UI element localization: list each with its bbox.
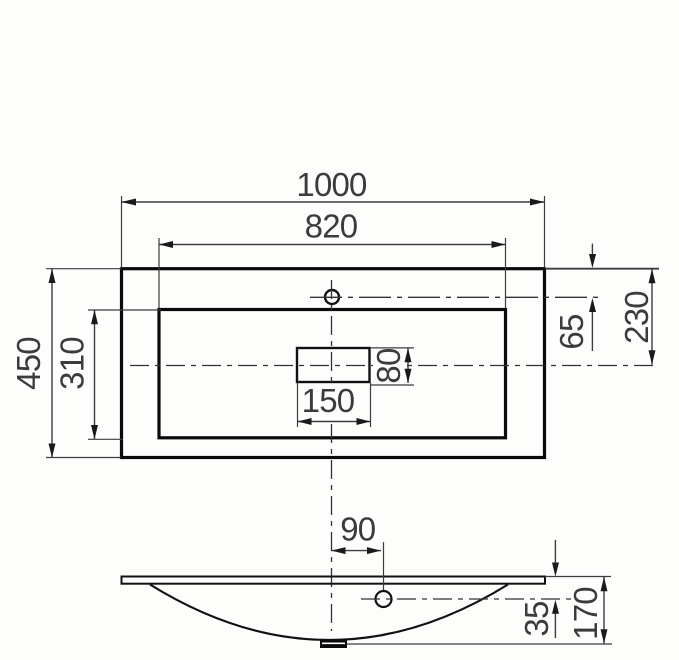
faucet horizontal centerline (dash-dot) [310,296,599,298]
drain horizontal centerline (dash-dot) [130,365,657,367]
dim 150 line [298,421,371,423]
dim 310 arrow bottom [91,425,98,439]
dim 1000 arrow left [122,199,137,206]
dim 450 arrow bottom [49,444,56,458]
outer basin outline (top view) [122,269,545,458]
rim (front view) [122,577,546,584]
faucet hole circle [325,290,339,304]
dim 820 arrow right [492,241,506,248]
dim 820 arrow left [159,241,173,248]
svg-text:90: 90 [340,511,376,548]
dim 150 label backing [304,387,356,418]
dim 80 extension line bottom [371,384,414,386]
dim 1000 extension line right [544,196,546,268]
svg-text:1000: 1000 [296,166,367,203]
dim 820 extension line left [158,238,160,308]
dim 65 upper tail with down arrow [591,244,593,255]
dim 170 arrow bottom [601,629,608,643]
dim 35 lower tail with up arrow [554,612,556,638]
dim 90 arrow right [367,547,381,554]
inner bowl outline (top view) [159,310,506,438]
dim 450 line [51,269,53,458]
dim 230 arrow bottom [649,350,656,364]
dim 1000 line [122,201,545,203]
dim 80 arrow top [405,348,412,362]
dim 230 arrow top [649,269,656,283]
dim 90 extension line right [383,542,385,590]
dim 310 arrow top [91,310,98,324]
svg-text:35: 35 [518,601,555,636]
dim 150 extension line right [370,383,372,427]
svg-text:230: 230 [618,291,655,344]
svg-text:450: 450 [10,337,47,390]
dim 170 arrow top [601,577,608,591]
drain fitting (front view) [320,640,347,649]
dim 450 extension line top [46,268,121,270]
dim 310 extension line top [88,309,161,311]
dim 820 line [159,244,506,246]
dim 90 arrow left [332,547,346,554]
svg-text:65: 65 [553,314,590,349]
dim 450 arrow top [49,269,56,283]
dim 65 lower tail with up arrow [591,311,593,351]
dim 1000 extension line left [121,196,123,268]
dim 170 extension line bottom [347,643,612,645]
svg-text:170: 170 [567,587,604,640]
dim 230 line [651,269,653,365]
dim 90 line [332,550,382,552]
dim 35 upper tail with down arrow [554,540,556,563]
dim 1000 arrow right [530,199,545,206]
dim 310 extension line bottom [88,438,123,440]
drain rectangle [297,348,370,382]
dim 80 arrow bottom [405,369,412,383]
dim 80 label backing [373,349,404,382]
dim 170 line [603,577,605,644]
overflow horizontal centerline (dash-dot) [361,598,578,600]
dim 150 extension line left [297,383,299,427]
dim 170 extension line top [545,576,611,578]
top edge extension to the right [545,268,659,270]
dim 310 line [94,310,96,439]
dim 820 extension line right [505,238,507,308]
dim 80 extension line top [370,347,414,349]
svg-text:80: 80 [370,348,407,384]
vertical centerline (dash-dot) [331,280,333,631]
svg-text:150: 150 [302,382,355,419]
overflow circle (front view) [376,591,392,607]
dim 150 arrow left [298,418,312,425]
bowl curve (front view) [150,585,508,641]
svg-text:310: 310 [54,337,91,390]
dim 450 extension line bottom [46,457,121,459]
dim 80 line [407,348,409,383]
dim 150 arrow right [357,418,371,425]
svg-text:820: 820 [305,208,358,245]
